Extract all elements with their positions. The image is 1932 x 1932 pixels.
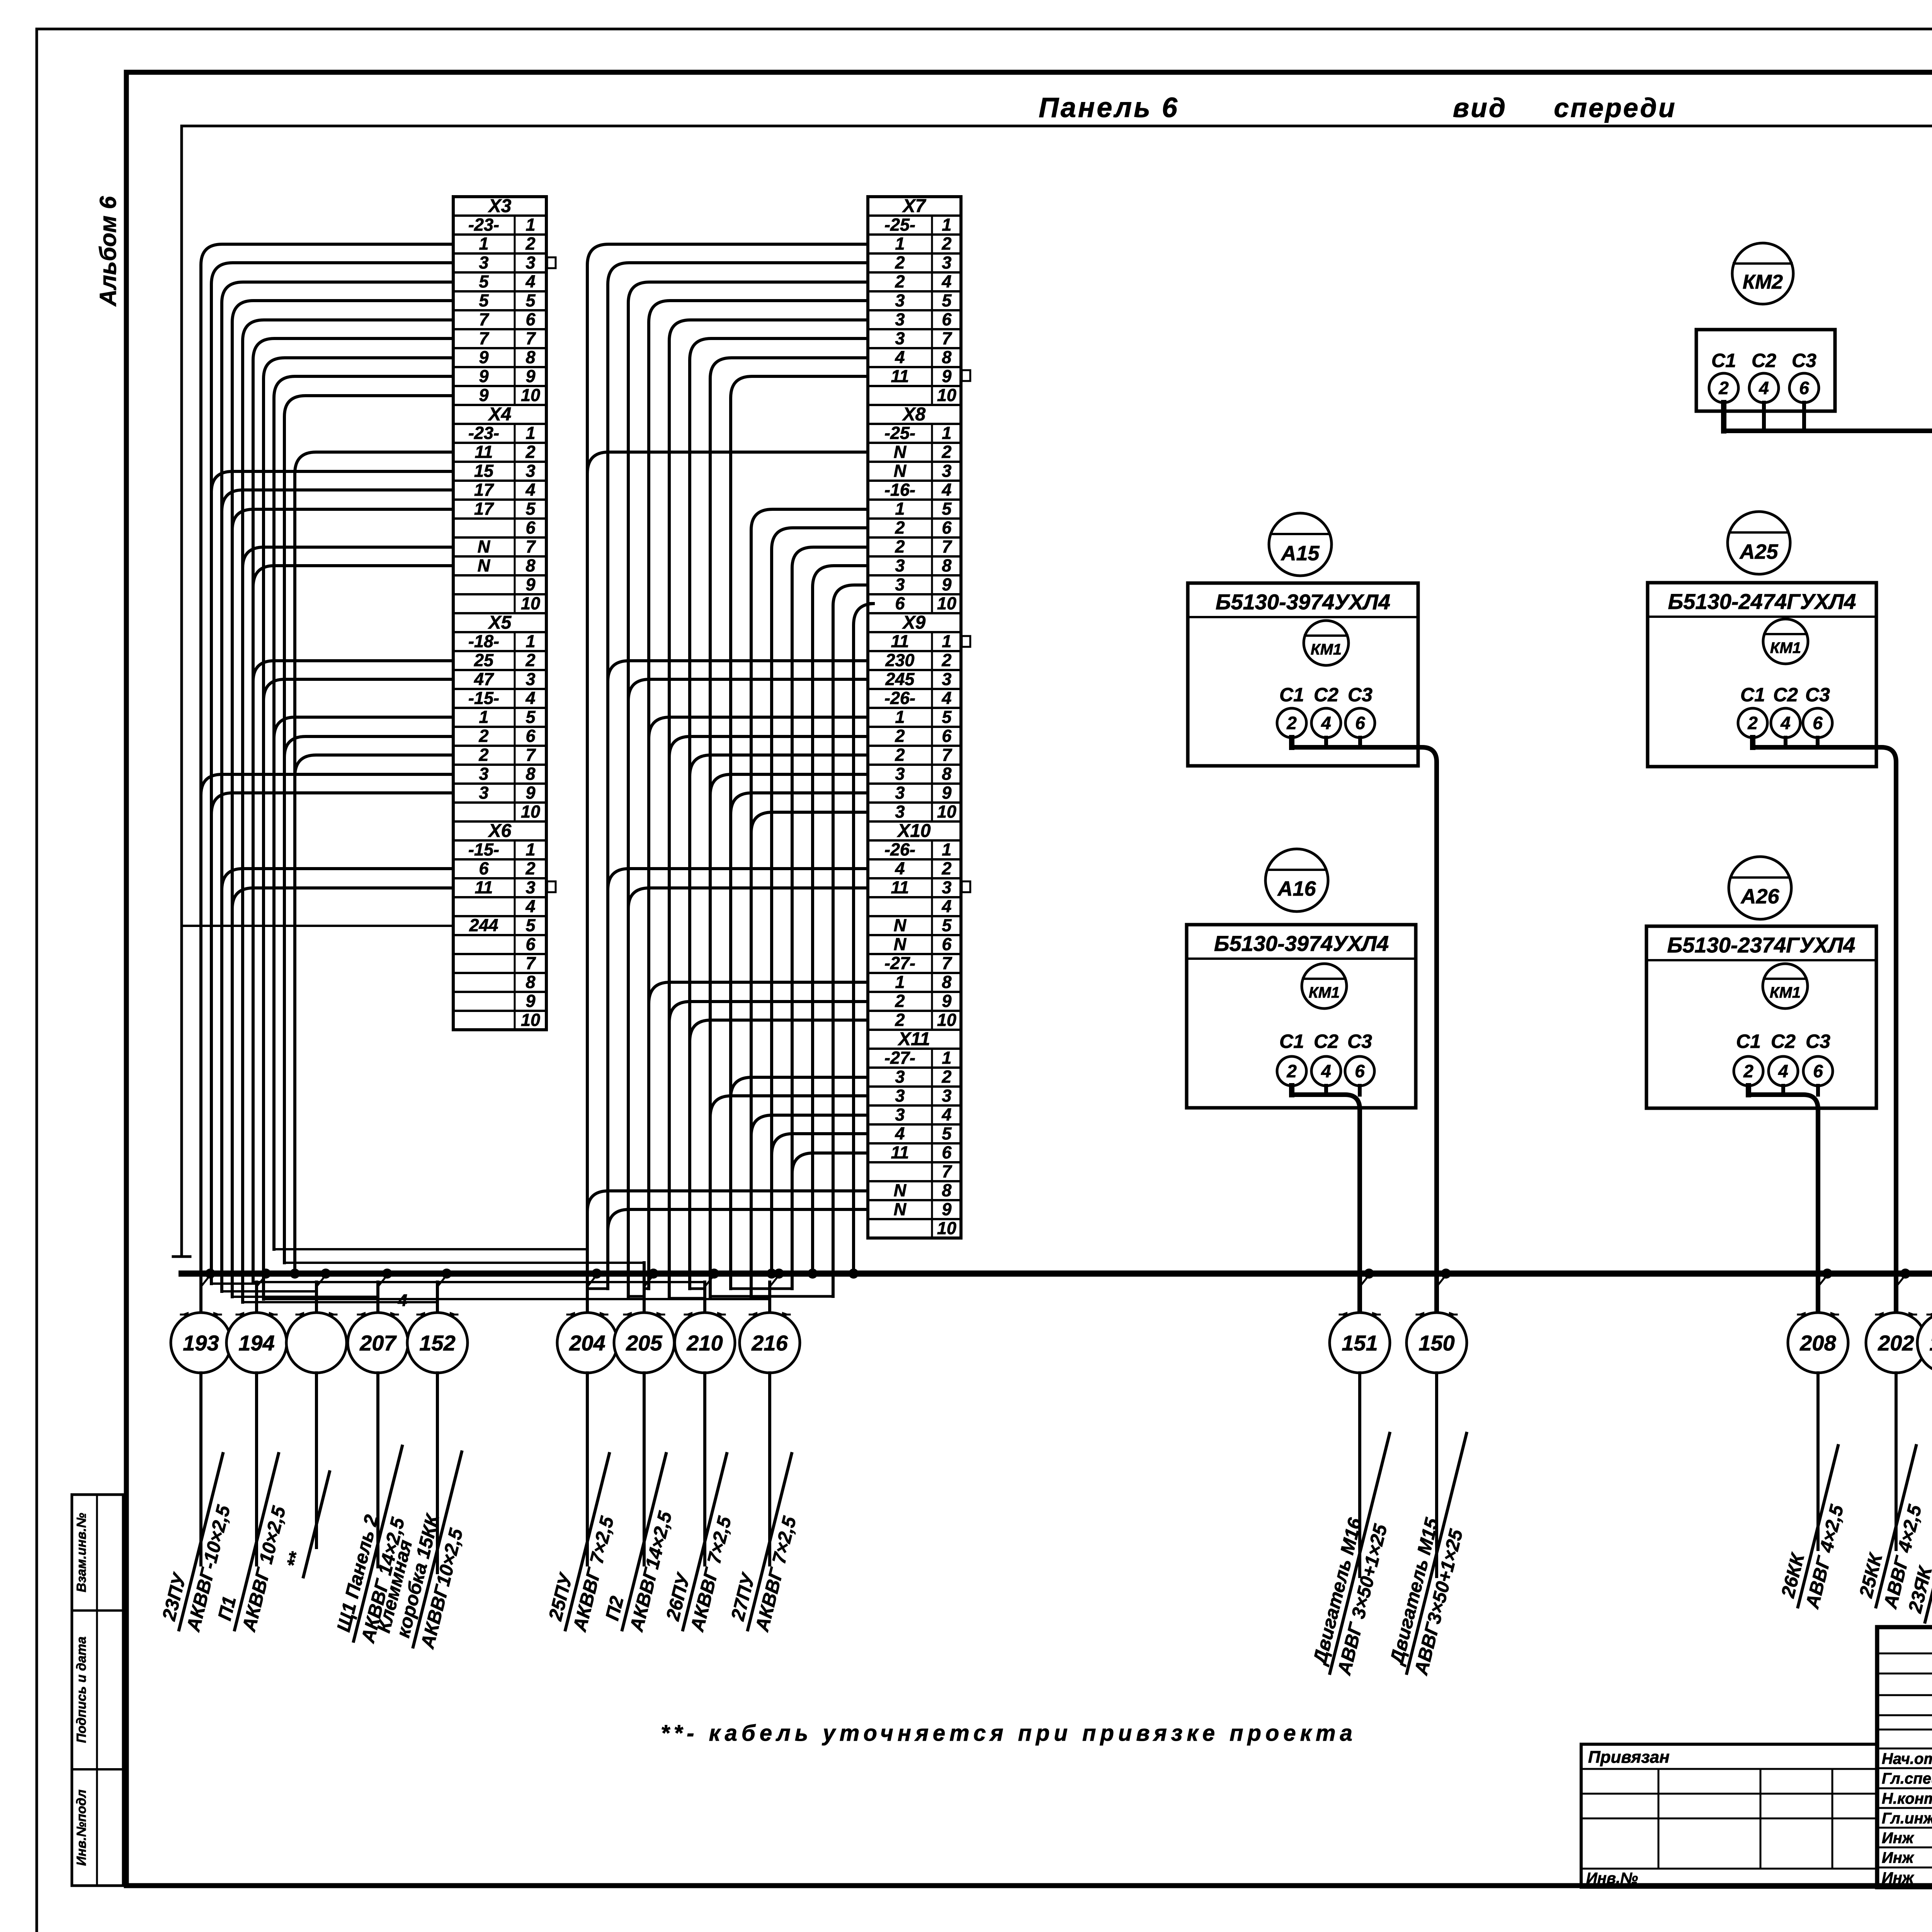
svg-text:Х11: Х11 [897, 1029, 930, 1049]
svg-text:1: 1 [526, 840, 535, 859]
svg-text:3: 3 [895, 310, 905, 329]
svg-text:3: 3 [895, 764, 905, 784]
svg-text:2: 2 [1747, 713, 1758, 733]
svg-text:10: 10 [937, 802, 956, 821]
svg-text:9: 9 [526, 991, 535, 1011]
svg-text:4: 4 [1759, 378, 1769, 398]
svg-text:1: 1 [895, 972, 905, 992]
svg-text:15: 15 [474, 461, 494, 481]
svg-text:3: 3 [895, 575, 905, 594]
svg-text:1: 1 [526, 423, 535, 443]
svg-text:2: 2 [941, 859, 951, 878]
svg-text:11: 11 [891, 1143, 909, 1162]
svg-text:3: 3 [942, 669, 951, 689]
svg-text:Инж: Инж [1882, 1830, 1915, 1847]
svg-text:11: 11 [891, 366, 909, 386]
svg-text:3: 3 [942, 1086, 951, 1105]
svg-text:1: 1 [895, 234, 905, 253]
svg-text:190: 190 [1929, 1331, 1932, 1355]
svg-text:Х7: Х7 [902, 196, 927, 216]
svg-text:10: 10 [937, 385, 956, 405]
svg-text:9: 9 [942, 366, 951, 386]
svg-text:202: 202 [1878, 1331, 1914, 1355]
svg-text:6: 6 [526, 310, 536, 329]
svg-text:6: 6 [1813, 1061, 1823, 1081]
svg-text:-26-: -26- [884, 840, 915, 859]
svg-text:Н.контр: Н.контр [1882, 1790, 1932, 1807]
svg-text:3: 3 [895, 328, 905, 348]
svg-text:4: 4 [525, 688, 535, 708]
svg-text:2: 2 [525, 234, 535, 253]
svg-text:1: 1 [942, 1048, 951, 1068]
svg-text:5: 5 [526, 291, 536, 310]
svg-text:6: 6 [942, 934, 952, 954]
svg-text:**- кабель уточняется п: **- кабель уточняется при привязке проек… [661, 1721, 1357, 1746]
svg-text:47: 47 [474, 669, 494, 689]
svg-text:С1: С1 [1279, 684, 1304, 706]
svg-text:С2: С2 [1773, 684, 1798, 706]
svg-text:10: 10 [937, 594, 956, 613]
svg-text:Х9: Х9 [902, 612, 926, 633]
svg-text:6: 6 [1799, 378, 1809, 398]
svg-text:1: 1 [942, 423, 951, 443]
svg-text:5: 5 [942, 291, 952, 310]
svg-text:-26-: -26- [884, 688, 915, 708]
svg-text:Б5130-3974УХЛ4: Б5130-3974УХЛ4 [1216, 590, 1390, 614]
svg-text:3: 3 [942, 878, 951, 897]
svg-text:8: 8 [942, 556, 951, 575]
svg-text:2: 2 [1743, 1061, 1753, 1081]
svg-text:7: 7 [942, 537, 952, 556]
svg-text:КМ1: КМ1 [1309, 984, 1340, 1001]
svg-text:2: 2 [1718, 378, 1729, 398]
svg-text:6: 6 [942, 1143, 952, 1162]
svg-text:КМ1: КМ1 [1311, 641, 1342, 658]
svg-text:вид: вид [1453, 93, 1507, 123]
svg-text:7: 7 [942, 745, 952, 765]
svg-text:3: 3 [526, 669, 535, 689]
svg-text:С2: С2 [1314, 1031, 1338, 1052]
svg-text:2: 2 [895, 253, 905, 272]
svg-text:6: 6 [1355, 713, 1365, 733]
svg-text:5: 5 [526, 499, 536, 519]
svg-text:11: 11 [475, 878, 493, 897]
svg-text:1: 1 [526, 215, 535, 235]
svg-text:Инв.№подл: Инв.№подл [74, 1789, 89, 1866]
svg-text:А25: А25 [1739, 540, 1778, 563]
svg-text:Х3: Х3 [488, 196, 512, 216]
svg-text:-15-: -15- [468, 688, 499, 708]
svg-text:194: 194 [238, 1331, 274, 1355]
svg-text:С3: С3 [1806, 1031, 1830, 1052]
svg-text:210: 210 [686, 1331, 723, 1355]
svg-text:2: 2 [895, 1010, 905, 1030]
svg-text:7: 7 [526, 745, 536, 765]
svg-text:5: 5 [479, 272, 489, 291]
svg-text:1: 1 [895, 707, 905, 727]
svg-text:7: 7 [526, 328, 536, 348]
svg-text:151: 151 [1342, 1331, 1378, 1355]
svg-text:N: N [894, 1180, 907, 1200]
svg-text:7: 7 [526, 537, 536, 556]
svg-text:8: 8 [942, 764, 951, 784]
svg-text:КМ2: КМ2 [1743, 271, 1783, 293]
svg-text:Х6: Х6 [488, 821, 512, 841]
svg-text:С3: С3 [1347, 1031, 1372, 1052]
svg-text:10: 10 [521, 594, 540, 613]
svg-text:С2: С2 [1771, 1031, 1796, 1052]
svg-text:Взам.инв.№: Взам.инв.№ [74, 1513, 89, 1592]
svg-text:Инж: Инж [1882, 1849, 1915, 1866]
svg-text:4: 4 [895, 1124, 905, 1143]
svg-text:2: 2 [895, 745, 905, 765]
svg-text:7: 7 [479, 328, 489, 348]
svg-text:5: 5 [526, 915, 536, 935]
svg-text:Б5130-2474ГУХЛ4: Б5130-2474ГУХЛ4 [1668, 589, 1856, 614]
svg-text:N: N [478, 537, 491, 556]
svg-text:5: 5 [479, 291, 489, 310]
svg-text:-23-: -23- [468, 215, 499, 235]
svg-text:Б5130-2374ГУХЛ4: Б5130-2374ГУХЛ4 [1667, 933, 1855, 957]
svg-text:3: 3 [942, 461, 951, 481]
svg-text:3: 3 [895, 556, 905, 575]
svg-text:С2: С2 [1314, 684, 1338, 706]
svg-text:Привязан: Привязан [1588, 1748, 1670, 1767]
svg-text:2: 2 [1286, 1061, 1297, 1081]
svg-text:204: 204 [569, 1331, 605, 1355]
svg-text:6: 6 [942, 310, 952, 329]
svg-text:4: 4 [941, 1105, 951, 1124]
svg-text:2: 2 [895, 991, 905, 1011]
svg-text:Х10: Х10 [896, 821, 931, 841]
svg-text:-25-: -25- [884, 423, 915, 443]
svg-text:7: 7 [942, 953, 952, 973]
svg-text:3: 3 [526, 461, 535, 481]
svg-text:9: 9 [942, 1199, 951, 1219]
svg-text:2: 2 [941, 650, 951, 670]
svg-text:10: 10 [521, 385, 540, 405]
svg-text:8: 8 [942, 972, 951, 992]
svg-text:А26: А26 [1740, 885, 1779, 908]
svg-text:8: 8 [526, 972, 535, 992]
svg-text:4: 4 [941, 480, 951, 500]
svg-text:2: 2 [478, 745, 488, 765]
svg-text:4: 4 [941, 272, 951, 291]
svg-text:5: 5 [942, 707, 952, 727]
svg-text:9: 9 [479, 366, 488, 386]
svg-text:С1: С1 [1736, 1031, 1761, 1052]
svg-text:4: 4 [1780, 713, 1791, 733]
svg-text:230: 230 [885, 650, 914, 670]
svg-text:2: 2 [895, 518, 905, 537]
svg-text:208: 208 [1799, 1331, 1836, 1355]
svg-text:Х8: Х8 [902, 404, 926, 425]
svg-text:Инв.№: Инв.№ [1586, 1870, 1638, 1887]
svg-text:1: 1 [942, 840, 951, 859]
svg-text:1: 1 [895, 499, 905, 519]
svg-text:3: 3 [479, 783, 488, 803]
svg-text:А15: А15 [1280, 542, 1320, 565]
svg-text:9: 9 [526, 575, 535, 594]
svg-text:6: 6 [1813, 713, 1823, 733]
svg-text:4: 4 [525, 272, 535, 291]
svg-text:4: 4 [895, 859, 905, 878]
svg-text:2: 2 [941, 1067, 951, 1087]
svg-text:4: 4 [1778, 1061, 1788, 1081]
svg-text:1: 1 [479, 234, 488, 253]
svg-text:8: 8 [526, 764, 535, 784]
svg-text:-15-: -15- [468, 840, 499, 859]
svg-text:2: 2 [895, 272, 905, 291]
svg-text:2: 2 [895, 537, 905, 556]
svg-text:Гл.спец.: Гл.спец. [1882, 1770, 1932, 1787]
svg-text:КМ1: КМ1 [1770, 984, 1801, 1001]
svg-text:6: 6 [479, 859, 489, 878]
svg-text:8: 8 [942, 347, 951, 367]
svg-text:Нач.отд.: Нач.отд. [1882, 1750, 1932, 1767]
svg-text:6: 6 [942, 726, 952, 746]
svg-text:17: 17 [474, 480, 494, 500]
svg-text:-27-: -27- [884, 953, 915, 973]
svg-text:10: 10 [521, 1010, 540, 1030]
svg-text:N: N [894, 442, 907, 462]
svg-text:2: 2 [1286, 713, 1297, 733]
svg-text:11: 11 [891, 878, 909, 897]
svg-text:N: N [478, 556, 491, 575]
svg-text:3: 3 [895, 1105, 905, 1124]
svg-text:Гл.инж.пр: Гл.инж.пр [1882, 1810, 1932, 1827]
svg-text:10: 10 [521, 802, 540, 821]
svg-text:8: 8 [526, 556, 535, 575]
svg-text:5: 5 [526, 707, 536, 727]
svg-text:С3: С3 [1792, 350, 1816, 371]
svg-text:1: 1 [479, 707, 488, 727]
svg-text:4: 4 [895, 347, 905, 367]
svg-text:9: 9 [479, 385, 488, 405]
svg-text:С1: С1 [1740, 684, 1765, 706]
svg-text:152: 152 [419, 1331, 455, 1355]
svg-text:150: 150 [1418, 1331, 1454, 1355]
svg-text:245: 245 [885, 669, 915, 689]
svg-text:11: 11 [891, 631, 909, 651]
svg-text:4: 4 [941, 896, 951, 916]
svg-text:7: 7 [942, 328, 952, 348]
svg-text:9: 9 [942, 991, 951, 1011]
svg-text:3: 3 [895, 802, 905, 821]
svg-text:5: 5 [942, 1124, 952, 1143]
svg-text:-16-: -16- [884, 480, 915, 500]
svg-text:3: 3 [895, 291, 905, 310]
svg-text:6: 6 [526, 518, 536, 537]
svg-text:5: 5 [942, 915, 952, 935]
svg-text:Панель 6: Панель 6 [1039, 92, 1179, 123]
svg-text:С1: С1 [1279, 1031, 1304, 1052]
svg-text:3: 3 [895, 783, 905, 803]
svg-text:4: 4 [398, 1291, 407, 1310]
svg-text:2: 2 [895, 726, 905, 746]
svg-text:N: N [894, 1199, 907, 1219]
svg-text:N: N [894, 915, 907, 935]
svg-text:3: 3 [526, 253, 535, 272]
svg-text:-23-: -23- [468, 423, 499, 443]
svg-text:10: 10 [937, 1218, 956, 1238]
svg-text:2: 2 [525, 650, 535, 670]
svg-text:4: 4 [525, 480, 535, 500]
svg-text:5: 5 [942, 499, 952, 519]
svg-text:6: 6 [526, 726, 536, 746]
svg-text:Б5130-3974УХЛ4: Б5130-3974УХЛ4 [1214, 931, 1389, 956]
svg-text:N: N [894, 461, 907, 481]
svg-text:Х5: Х5 [488, 612, 512, 633]
svg-text:2: 2 [525, 442, 535, 462]
svg-text:N: N [894, 934, 907, 954]
svg-text:С3: С3 [1805, 684, 1830, 706]
svg-text:6: 6 [1355, 1061, 1365, 1081]
svg-text:11: 11 [475, 442, 493, 462]
svg-text:9: 9 [942, 575, 951, 594]
svg-text:7: 7 [526, 953, 536, 973]
svg-text:КМ1: КМ1 [1770, 639, 1801, 656]
svg-text:1: 1 [526, 631, 535, 651]
svg-text:-27-: -27- [884, 1048, 915, 1068]
svg-text:9: 9 [526, 783, 535, 803]
svg-text:3: 3 [895, 1067, 905, 1087]
svg-text:2: 2 [525, 859, 535, 878]
svg-text:3: 3 [479, 764, 488, 784]
svg-text:216: 216 [751, 1331, 788, 1355]
svg-text:1: 1 [942, 215, 951, 235]
svg-text:2: 2 [941, 234, 951, 253]
svg-text:205: 205 [626, 1331, 662, 1355]
svg-text:4: 4 [525, 896, 535, 916]
svg-text:9: 9 [526, 366, 535, 386]
svg-text:-18-: -18- [468, 631, 499, 651]
svg-text:9: 9 [942, 783, 951, 803]
svg-text:С2: С2 [1752, 350, 1776, 371]
svg-text:9: 9 [479, 347, 488, 367]
svg-text:25: 25 [474, 650, 494, 670]
svg-text:6: 6 [895, 594, 905, 613]
svg-text:4: 4 [1321, 713, 1331, 733]
svg-text:-25-: -25- [884, 215, 915, 235]
svg-text:7: 7 [479, 310, 489, 329]
svg-text:4: 4 [1321, 1061, 1331, 1081]
svg-text:С1: С1 [1711, 350, 1736, 371]
svg-text:2: 2 [941, 442, 951, 462]
svg-text:А16: А16 [1277, 877, 1316, 900]
svg-text:3: 3 [479, 253, 488, 272]
svg-text:6: 6 [526, 934, 536, 954]
svg-text:244: 244 [469, 915, 498, 935]
svg-text:Подпись и дата: Подпись и дата [74, 1636, 89, 1743]
svg-text:17: 17 [474, 499, 494, 519]
svg-text:2: 2 [478, 726, 488, 746]
svg-text:3: 3 [895, 1086, 905, 1105]
svg-text:Инж: Инж [1882, 1869, 1915, 1886]
svg-text:6: 6 [942, 518, 952, 537]
svg-text:8: 8 [942, 1180, 951, 1200]
svg-text:207: 207 [359, 1331, 397, 1355]
svg-text:1: 1 [942, 631, 951, 651]
svg-text:7: 7 [942, 1162, 952, 1181]
svg-text:спереди: спереди [1554, 93, 1676, 123]
svg-text:10: 10 [937, 1010, 956, 1030]
svg-text:3: 3 [942, 253, 951, 272]
svg-text:193: 193 [183, 1331, 219, 1355]
svg-text:3: 3 [526, 878, 535, 897]
svg-text:Х4: Х4 [488, 404, 512, 425]
svg-text:4: 4 [941, 688, 951, 708]
svg-text:8: 8 [526, 347, 535, 367]
svg-text:Альбом 6: Альбом 6 [95, 196, 121, 307]
svg-text:С3: С3 [1348, 684, 1372, 706]
